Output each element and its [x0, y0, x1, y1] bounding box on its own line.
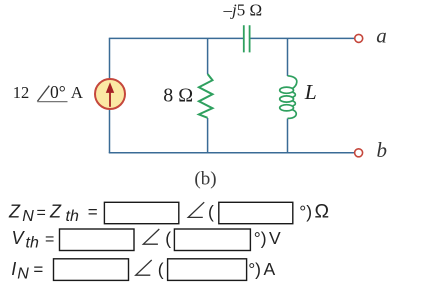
formula row 3: IN = [11, 259, 43, 283]
angle symbol of source label [37, 86, 49, 102]
svg-text:V: V [269, 228, 281, 248]
svg-text:(b): (b) [194, 169, 216, 190]
svg-text:°): °) [248, 260, 261, 280]
angle symbol row1 [188, 202, 204, 217]
svg-text:Z: Z [8, 201, 21, 221]
svg-text:=: = [88, 202, 98, 221]
wire: top horizontal right segment (capacitor to terminal a) [250, 37, 354, 39]
angle symbol row2 [143, 229, 159, 244]
current source I1 12&#8736;0&#176; A (circle) [95, 79, 125, 109]
wire: bottom horizontal (to terminal b) [109, 152, 355, 154]
svg-text:(: ( [208, 202, 214, 222]
wire: inductor branch stubs [287, 38, 289, 152]
svg-text:=: = [37, 204, 46, 221]
svg-text:L: L [304, 80, 317, 104]
wire: top horizontal left segment (source node to capacitor) [109, 37, 243, 39]
svg-text:b: b [377, 138, 388, 162]
svg-text:(: ( [165, 229, 171, 249]
formula row 1: ZN = Zth = [8, 201, 98, 225]
svg-text:=: = [45, 231, 54, 248]
svg-text:I: I [11, 259, 16, 279]
svg-text:N: N [17, 266, 29, 283]
wire: left branch vertical (source branch) [109, 38, 111, 153]
svg-text:A: A [71, 83, 84, 102]
svg-text:N: N [22, 208, 34, 225]
input box row3 magnitude [54, 259, 129, 281]
terminal a (circle) [355, 34, 363, 42]
svg-text:°): °) [254, 229, 267, 249]
input box row1 magnitude [104, 202, 178, 223]
svg-text:th: th [26, 235, 39, 252]
svg-text:V: V [12, 228, 26, 248]
svg-text:0°: 0° [50, 82, 66, 102]
inductor L coil [280, 76, 297, 119]
input box row1 angle [219, 202, 293, 223]
input box row2 magnitude [60, 229, 135, 251]
svg-text:°): °) [299, 202, 312, 222]
svg-text:th: th [66, 208, 79, 225]
current source arrow [106, 82, 114, 107]
svg-text:A: A [264, 259, 276, 279]
svg-text:(: ( [158, 260, 164, 280]
formula row 2: Vth = [12, 228, 55, 252]
wire: resistor branch stubs [207, 38, 209, 152]
svg-text:8 Ω: 8 Ω [163, 84, 193, 106]
svg-text:a: a [376, 24, 387, 48]
svg-text:Z: Z [49, 201, 62, 221]
svg-text:=: = [33, 260, 43, 279]
svg-text:Ω: Ω [315, 201, 330, 223]
angle symbol row3 [136, 260, 152, 275]
input box row2 angle [174, 229, 250, 251]
capacitor C -j5ohm plates [244, 25, 250, 52]
svg-text:–j5 Ω: –j5 Ω [223, 1, 263, 20]
input box row3 angle [168, 259, 247, 281]
resistor R 8ohm zigzag [199, 74, 213, 118]
terminal b (circle) [355, 149, 363, 157]
svg-text:12: 12 [13, 83, 30, 102]
